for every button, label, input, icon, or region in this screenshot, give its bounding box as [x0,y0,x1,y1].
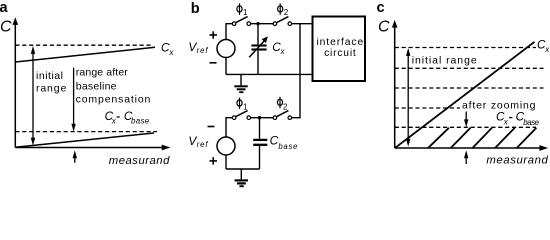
axis label C (panel a) [0,19,12,36]
svg-text:initial: initial [36,70,63,82]
svg-text:x: x [544,45,550,54]
svg-text:a: a [0,0,9,16]
wire node to Cbase [259,118,261,139]
y-axis (panel c) [392,20,398,148]
svg-text:initial range: initial range [412,55,477,67]
label phi1 (top) [237,3,248,17]
junction node bottom (Cbase tap) [258,116,261,119]
plus sign bottom source [210,157,218,164]
svg-text:circuit: circuit [324,48,356,59]
svg-text:b: b [191,1,200,17]
junction node top (Cx tap) [256,22,259,25]
switch phi2 (bottom) [273,111,292,120]
wire bottom source to ground rail [225,155,227,169]
svg-text:C: C [270,133,279,147]
hatch line 5 (panel c) [517,128,536,148]
svg-text:x: x [111,117,117,126]
panel label c [377,0,385,16]
panel label a [0,0,9,16]
text after zooming (panel c) [462,100,536,112]
ground rail (top circuit) [226,73,312,75]
hatch line 2 (panel c) [451,128,471,148]
svg-text:range: range [36,82,66,94]
wire summing node vertical [299,24,301,118]
wire node to Cx [257,24,259,45]
dashed level line 4 (panel c) [395,107,460,109]
svg-text:x: x [503,118,509,127]
label Vref top source [188,40,208,55]
curve Cx (panel c) [395,42,535,148]
axis label C (panel c) [378,19,390,36]
rule with down arrow: range after baseline compensation (panel a) [71,68,75,132]
label Cx (panel c) [537,38,550,55]
svg-text:range after: range after [76,67,129,79]
svg-text:measurand: measurand [486,155,548,167]
up arrow to axis (panel a) [73,150,77,163]
voltage source V1 (top) [217,40,235,58]
plus sign top source [210,31,218,38]
svg-text:ref: ref [197,46,209,55]
dashed level line: Cx maximum (panel a) [15,44,152,46]
down arrow to dashed line (panel c) [464,112,468,128]
wire phi1 to phi2 (bottom) [251,117,274,119]
text range after baseline compensation (panel a) [76,67,151,106]
svg-text:C: C [0,19,12,36]
label Cx (panel b) [272,40,285,56]
wire phi2 to summing node (bottom) [292,117,301,119]
minus sign bottom source [208,126,215,128]
svg-text:c: c [377,0,385,16]
y-axis (panel a) [13,17,19,147]
wire Cbase to ground rail (bottom) [259,146,261,169]
up arrow to axis (panel c) [464,150,468,164]
svg-text:compensation: compensation [76,93,151,105]
svg-text:1: 1 [243,102,248,111]
ground (top circuit) [234,74,247,92]
label Cbase [270,133,298,151]
label Vref bottom source [188,134,208,149]
capacitor Cbase [253,140,267,145]
x-axis (panel c) [395,145,549,151]
axis label measurand (panel c) [486,155,548,167]
svg-text:ref: ref [197,140,209,149]
label Cx - Cbase (panel c) [496,110,540,127]
initial range double arrow (panel c) [406,48,410,147]
dashed level line: Cx-Cbase maximum (panel a) [15,131,157,133]
initial range double arrow (panel a) [31,46,35,146]
wire Cx to ground rail [257,51,259,75]
switch phi1 (bottom) [232,111,250,120]
svg-text:2: 2 [284,8,289,17]
label phi2 (bottom) [277,97,288,112]
svg-text:baseline: baseline [76,80,117,92]
voltage source V2 (bottom) [217,137,235,155]
svg-text:base: base [131,117,150,126]
ground (bottom circuit) [235,169,248,186]
interface circuit box U1 [313,17,366,82]
svg-text:base: base [523,118,539,127]
curve Cx-Cbase (panel a) [15,133,154,147]
curve Cx (panel a) [15,47,155,62]
text initial range (panel a) [36,70,66,94]
wire phi1 to phi2 (top) [251,23,274,25]
svg-text:C: C [378,19,390,36]
dashed level line 5 (panel c) [395,126,536,128]
wire top source to phi1 [226,24,232,40]
ground rail (bottom circuit) [226,168,260,170]
wire bottom source to phi1 [226,118,232,137]
x-axis (panel a) [15,145,170,151]
minus sign top source [210,62,217,64]
dashed level line 1 (panel c) [395,47,536,49]
svg-text:interface: interface [317,37,364,48]
svg-text:2: 2 [283,103,288,112]
wire phi2 to interface circuit [292,23,312,25]
switch phi2 (top) [273,17,292,26]
svg-text:1: 1 [243,8,248,17]
switch phi1 (top) [232,17,250,26]
svg-text:x: x [168,48,174,57]
hatch line 4 (panel c) [495,128,515,148]
axis label measurand (panel a) [109,155,170,167]
text initial range (panel c) [412,55,477,67]
svg-text:base: base [278,142,298,151]
svg-text:x: x [280,47,286,56]
wire top source to ground rail [225,58,227,75]
dashed level line 2 (panel c) [395,67,544,69]
label phi1 (bottom) [237,98,248,112]
hatch line 3 (panel c) [473,128,492,148]
label Cx (panel a) [161,40,174,57]
panel label b [191,1,200,17]
hatch line 1 (panel c) [428,128,449,148]
svg-text:measurand: measurand [109,155,170,167]
label Cx - Cbase (panel a) [105,109,150,126]
capacitor Cx (variable) [249,36,268,57]
dashed level line 3 (panel c) [395,87,544,89]
label phi2 (top) [278,3,289,17]
